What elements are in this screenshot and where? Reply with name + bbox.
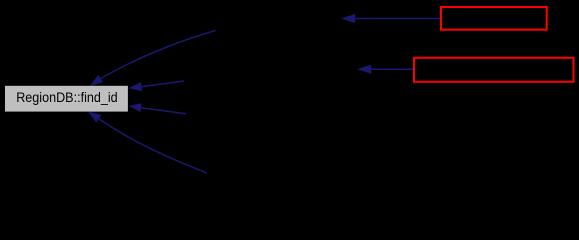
node: lower truncated caller (red border, hidden label) [414,58,574,82]
arrowhead into right edge (lower) of RegionDB::find_id [129,103,142,112]
node RegionDB::find_id (current node, grey fill) [5,86,128,112]
arrowhead pointing left at middle hidden node [357,65,371,74]
arrowhead into bottom of RegionDB::find_id [88,112,101,123]
arrowhead into top of RegionDB::find_id [90,75,103,86]
arrowhead into right edge (upper) of RegionDB::find_id [128,82,142,91]
wire: edge from middle hidden node (lower) to RegionDB::find_id [141,108,186,114]
wire: edge from top red node to top hidden node [354,18,440,20]
svg-text:RegionDB::find_id: RegionDB::find_id [16,89,118,105]
wire: edge from middle hidden node (upper) to RegionDB::find_id [142,81,184,87]
wire: edge from lower red node to middle hidden node [370,68,413,70]
node: top truncated caller (red border, hidden label) [441,7,547,30]
arrowhead pointing left at top hidden node [341,14,355,23]
wire: edge from top hidden node to RegionDB::find_id (curved) [101,31,216,79]
wire: edge from bottom hidden node to RegionDB::find_id (curved) [99,119,207,173]
